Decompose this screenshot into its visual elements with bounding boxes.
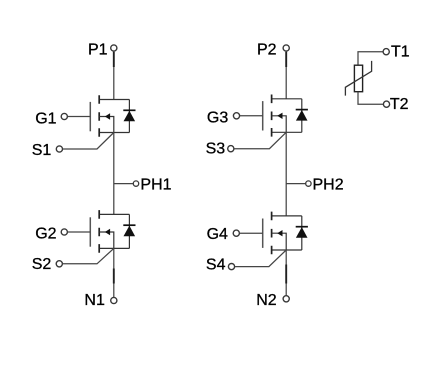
diode D3 cathode bar	[296, 109, 308, 111]
pin thick segment P2	[285, 52, 287, 67]
svg-text:PH1: PH1	[140, 177, 171, 194]
transistor Q3 body arrow	[277, 113, 282, 119]
op Q2 low-side MOSFET	[90, 210, 135, 253]
diode D2 triangle	[124, 226, 136, 237]
wire Q3 drain stub	[272, 98, 302, 100]
transistor Q2 gate plate	[89, 217, 91, 246]
wire Q1 diode branch	[128, 100, 130, 133]
transistor Q1 channel dashes	[98, 95, 100, 137]
terminal N1	[111, 297, 117, 303]
wire G4	[240, 232, 263, 234]
transistor Q3 channel dashes	[271, 95, 273, 137]
wire S3	[234, 132, 286, 148]
transistor Q2 channel dashes	[98, 210, 100, 253]
node PH2	[286, 183, 306, 185]
svg-text:S2: S2	[32, 256, 52, 273]
wire T2 lead	[358, 92, 383, 105]
terminal N2	[283, 296, 289, 302]
svg-text:G3: G3	[207, 110, 228, 127]
terminal P1	[111, 45, 117, 51]
wire Q3 source stub	[272, 131, 302, 133]
wire G3	[240, 115, 263, 117]
wire T1 lead	[358, 52, 383, 65]
terminal S4	[228, 264, 234, 270]
terminal T2	[383, 101, 389, 107]
wire Q4 diode branch	[301, 216, 303, 250]
pin thick segment P1	[113, 52, 115, 67]
thermistor RT	[345, 52, 383, 104]
transistor Q3 gate plate	[262, 101, 264, 130]
svg-text:G4: G4	[207, 226, 228, 243]
wire G1	[68, 116, 91, 118]
svg-text:S1: S1	[32, 142, 52, 159]
wire Q1 body stub	[99, 117, 114, 133]
wire S1	[63, 133, 114, 150]
transistor Q1 body arrow	[105, 113, 110, 119]
diode D3 triangle	[296, 110, 308, 121]
wire Q1 source to Q2 drain	[113, 133, 115, 215]
wire S4	[235, 250, 286, 267]
svg-text:G2: G2	[35, 226, 56, 243]
diode D4 triangle	[296, 227, 308, 238]
wire Q2 drain stub	[99, 213, 129, 215]
wire G2	[68, 231, 91, 233]
op Q1 high-side MOSFET	[90, 95, 135, 137]
svg-text:S4: S4	[206, 256, 226, 273]
op Q4 low-side MOSFET	[263, 212, 308, 255]
svg-text:P2: P2	[257, 42, 277, 59]
terminal T1	[383, 49, 389, 55]
terminal G3	[233, 113, 239, 119]
terminal G4	[233, 230, 239, 236]
transistor Q1 gate plate	[89, 102, 91, 131]
wire Q1 drain stub	[99, 99, 129, 101]
pin thick segment N1	[113, 269, 115, 284]
terminal S1	[56, 146, 62, 152]
wire P1 to Q1 drain	[113, 51, 115, 99]
terminal S3	[228, 146, 234, 152]
op Q3 high-side MOSFET	[263, 95, 308, 137]
node PH1	[114, 183, 134, 185]
terminal S2	[56, 261, 62, 267]
terminal P2	[283, 45, 289, 51]
wire Q4 drain stub	[272, 215, 302, 217]
thermistor body rect	[354, 65, 362, 92]
svg-text:G1: G1	[35, 110, 56, 127]
wire Q4 source to N2	[285, 250, 287, 296]
transistor Q4 gate plate	[262, 219, 264, 248]
wire Q3 source to Q4 drain	[285, 132, 287, 216]
wire Q3 body stub	[272, 116, 287, 133]
transistor Q2 body arrow	[105, 229, 110, 235]
wire Q4 body stub	[272, 233, 287, 250]
transistor Q4 channel dashes	[271, 212, 273, 255]
wire Q2 body stub	[99, 232, 114, 248]
svg-text:N2: N2	[256, 292, 277, 309]
terminal G1	[61, 113, 67, 119]
wire Q3 diode branch	[301, 99, 303, 133]
svg-text:S3: S3	[206, 141, 226, 158]
wire Q2 diode branch	[128, 214, 130, 248]
svg-text:T1: T1	[391, 44, 410, 61]
terminal G2	[61, 229, 67, 235]
transistor Q4 body arrow	[277, 230, 282, 236]
svg-text:N1: N1	[84, 292, 105, 309]
diode D4 cathode bar	[296, 226, 308, 228]
pin thick segment N2	[285, 265, 287, 284]
wire S2	[63, 248, 114, 263]
svg-text:T2: T2	[390, 96, 409, 113]
wire P2 to Q3 drain	[285, 51, 287, 98]
wire Q4 source stub	[272, 249, 302, 251]
wire Q2 source stub	[99, 247, 129, 249]
wire Q2 source to N1	[113, 248, 115, 297]
diode D1 cathode bar	[123, 109, 135, 111]
diode D1 triangle	[124, 111, 136, 122]
wire Q1 source stub	[99, 132, 129, 134]
thermistor strike mark	[345, 61, 371, 96]
svg-text:P1: P1	[88, 42, 108, 59]
svg-text:PH2: PH2	[313, 177, 344, 194]
diode D2 cathode bar	[123, 224, 135, 226]
